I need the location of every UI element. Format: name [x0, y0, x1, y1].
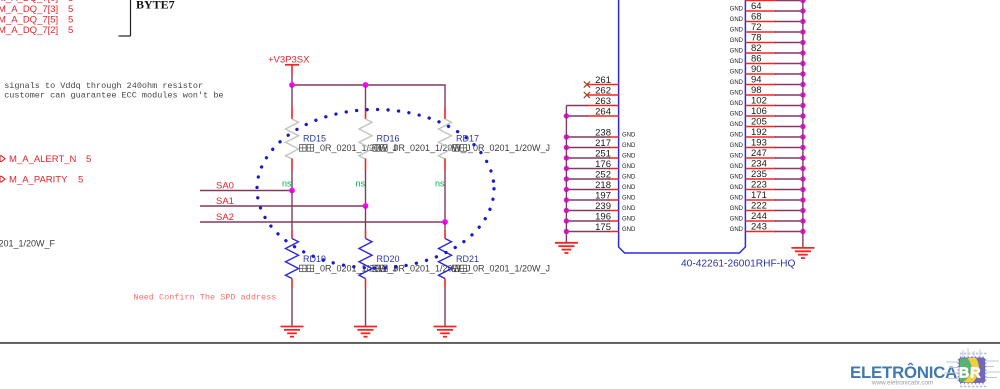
svg-text:+V3P3SX: +V3P3SX — [268, 55, 310, 66]
pin 205 — [730, 117, 776, 129]
pin 197 — [595, 190, 636, 201]
svg-text:GND: GND — [730, 133, 744, 139]
svg-text:GND: GND — [622, 133, 636, 139]
no-connect X pin 262 — [584, 92, 590, 98]
net SA0 — [200, 181, 293, 192]
wire pin 252 to GND rail — [566, 178, 610, 180]
svg-text:GND: GND — [622, 154, 636, 160]
svg-text:5: 5 — [68, 14, 73, 25]
wire RD19 to ground — [291, 288, 293, 327]
pin 193 — [730, 138, 776, 150]
svg-text:M_A_DQ_7[5]: M_A_DQ_7[5] — [0, 14, 58, 25]
svg-text:_0R_0201_1/20W_J: _0R_0201_1/20W_J — [467, 264, 550, 274]
junction pin 222 / GND rail — [800, 208, 805, 213]
wire RD21 to ground — [444, 288, 446, 327]
wire pin 222 to GND rail — [775, 210, 803, 212]
junction pin 94 / GND rail — [800, 82, 805, 87]
junction pin 64 / GND rail — [800, 8, 805, 13]
resistor RD16 — [359, 107, 372, 170]
svg-text:GND: GND — [622, 227, 636, 233]
pin 244 — [730, 211, 776, 223]
resistor RD17 — [439, 107, 452, 170]
junction pin 238 / GND rail — [564, 134, 569, 139]
pin 264 — [587, 106, 619, 117]
svg-text:GND: GND — [730, 70, 744, 76]
wire pin 223 to GND rail — [775, 189, 803, 191]
svg-text:GND: GND — [730, 196, 744, 202]
wire pin 196 to GND rail — [566, 220, 610, 222]
value label RD20 — [373, 264, 471, 274]
junction bus/RD15 — [289, 82, 295, 88]
connector J 40-42261-26001RHF-HQ body — [619, 0, 746, 253]
wire bus to RD15 — [291, 85, 293, 107]
svg-text:GND: GND — [622, 196, 636, 202]
wire SA1 to RD20 — [365, 206, 367, 230]
wire pin 102 to GND rail — [775, 105, 803, 107]
ground — [281, 327, 304, 337]
pin (clipped top row) — [745, 0, 803, 2]
pin 217 — [595, 138, 636, 149]
ground — [354, 327, 377, 337]
wire pin 263 to GND rail — [566, 105, 587, 107]
wire pin 193 to GND rail — [775, 147, 803, 149]
svg-text:GND: GND — [730, 101, 744, 107]
junction pin 78 / GND rail — [800, 40, 805, 45]
pin 222 — [730, 201, 776, 213]
pin 223 — [730, 180, 776, 192]
svg-text:GND: GND — [622, 164, 636, 170]
svg-text:GND: GND — [730, 175, 744, 181]
net SA1 — [200, 196, 366, 207]
svg-text:RD16: RD16 — [377, 134, 400, 144]
svg-text:235: 235 — [751, 169, 767, 180]
junction bus/RD16 — [363, 82, 369, 88]
junction pin 102 / GND rail — [800, 103, 805, 108]
wire pin 90 to GND rail — [775, 73, 803, 75]
junction SA2 — [442, 219, 448, 225]
junction pin 251 / GND rail — [564, 155, 569, 160]
svg-text:GND: GND — [730, 112, 744, 118]
svg-text:GND: GND — [622, 143, 636, 149]
resistor RD19 — [286, 230, 299, 288]
wire RD16 to SA1 — [365, 170, 367, 206]
wire pin 72 to GND rail — [775, 31, 803, 33]
junction pin 247 / GND rail — [800, 155, 805, 160]
wire pin 239 to GND rail — [566, 210, 610, 212]
pin 64 — [730, 1, 776, 13]
junction clipped pin / GND rail — [800, 0, 805, 3]
pin 218 — [595, 180, 636, 191]
svg-text:GND: GND — [622, 185, 636, 191]
off-page connector M_A_ALERT_N — [0, 154, 91, 165]
svg-text:GND: GND — [730, 143, 744, 149]
pin 192 — [730, 127, 776, 139]
wire pin 235 to GND rail — [775, 178, 803, 180]
junction pin 98 / GND rail — [800, 92, 805, 97]
bus bracket BYTE7 — [119, 0, 131, 36]
svg-text:Need Confirn The SPD address: Need Confirn The SPD address — [134, 292, 277, 302]
wire pin 234 to GND rail — [775, 168, 803, 170]
pin 98 — [730, 85, 776, 97]
svg-text:86: 86 — [751, 54, 762, 65]
junction pin 176 / GND rail — [564, 166, 569, 171]
svg-text:RD21: RD21 — [456, 254, 479, 264]
wire pin 86 to GND rail — [775, 63, 803, 65]
junction pin 252 / GND rail — [564, 176, 569, 181]
ground (right rail) — [791, 248, 814, 258]
svg-text:GND: GND — [730, 59, 744, 65]
resistor RD15 — [286, 107, 299, 170]
svg-text:5: 5 — [78, 175, 83, 186]
svg-text:5: 5 — [68, 25, 73, 36]
GND rail (right) — [802, 0, 804, 248]
pin 82 — [730, 43, 776, 55]
wire pin 176 to GND rail — [566, 168, 610, 170]
resistor RD20 — [359, 230, 372, 288]
svg-text:0201_1/20W_F: 0201_1/20W_F — [0, 239, 56, 249]
note: design comment — [0, 81, 224, 101]
svg-text:ns: ns — [355, 178, 365, 188]
svg-text:GND: GND — [730, 49, 744, 55]
pin 252 — [595, 169, 636, 180]
wire pin 82 to GND rail — [775, 52, 803, 54]
wire pin 192 to GND rail — [775, 136, 803, 138]
junction pin 243 / GND rail — [800, 229, 805, 234]
wire RD20 to ground — [365, 288, 367, 327]
svg-text:GND: GND — [730, 80, 744, 86]
svg-text:M_A_ALERT_N: M_A_ALERT_N — [9, 154, 77, 165]
wire pin 244 to GND rail — [775, 220, 803, 222]
pin 234 — [730, 159, 776, 171]
svg-text:SA1: SA1 — [216, 196, 234, 207]
svg-text:244: 244 — [751, 211, 767, 222]
junction pin 192 / GND rail — [800, 134, 805, 139]
wire pin 218 to GND rail — [566, 189, 610, 191]
wire pin 106 to GND rail — [775, 115, 803, 117]
svg-text:GND: GND — [730, 164, 744, 170]
wire bus to RD16 — [365, 85, 367, 107]
wire pin 68 to GND rail — [775, 21, 803, 23]
off-page connector M_A_PARITY — [0, 175, 83, 186]
value label RD19 — [300, 264, 398, 274]
junction pin 68 / GND rail — [800, 19, 805, 24]
net M_A_DQ_7[3] — [0, 4, 73, 15]
svg-text:GND: GND — [730, 122, 744, 128]
svg-text:5: 5 — [68, 4, 73, 15]
wire pin 247 to GND rail — [775, 157, 803, 159]
junction pin 82 / GND rail — [800, 50, 805, 55]
svg-text:GND: GND — [730, 7, 744, 13]
svg-text:193: 193 — [751, 138, 767, 149]
svg-text:GND: GND — [730, 28, 744, 34]
junction pin 196 / GND rail — [564, 218, 569, 223]
junction pin 264 / GND rail — [564, 113, 569, 118]
pin 171 — [730, 190, 776, 202]
power +V3P3SX — [268, 55, 310, 75]
ground — [434, 327, 457, 337]
pin 78 — [730, 33, 776, 45]
value label RD15 — [300, 143, 398, 153]
junction pin 197 / GND rail — [564, 197, 569, 202]
junction pin 239 / GND rail — [564, 208, 569, 213]
wire pin 94 to GND rail — [775, 84, 803, 86]
net M_A_DQ_7[0] — [0, 0, 73, 4]
wire +V3P3SX bus — [291, 84, 445, 86]
svg-text:90: 90 — [751, 64, 762, 75]
svg-text:ns: ns — [435, 178, 445, 188]
svg-text:M_A_DQ_7[2]: M_A_DQ_7[2] — [0, 25, 58, 36]
junction pin 193 / GND rail — [800, 145, 805, 150]
pin 238 — [595, 127, 636, 138]
pin 263 — [587, 96, 619, 107]
pin 262 (no connect) — [588, 85, 619, 96]
junction pin 217 / GND rail — [564, 145, 569, 150]
svg-text:68: 68 — [751, 12, 762, 23]
svg-text:264: 264 — [595, 106, 611, 117]
svg-text:M_A_PARITY: M_A_PARITY — [9, 175, 68, 186]
wire pin 98 to GND rail — [775, 94, 803, 96]
pin 243 — [730, 222, 776, 234]
svg-text:64: 64 — [751, 1, 762, 12]
svg-text:GND: GND — [730, 217, 744, 223]
svg-text:ns: ns — [282, 178, 292, 188]
pin 94 — [730, 75, 776, 87]
svg-text:GND: GND — [730, 154, 744, 160]
value label RD16 — [373, 143, 471, 153]
junction pin 86 / GND rail — [800, 61, 805, 66]
pin 90 — [730, 64, 776, 76]
junction pin 218 / GND rail — [564, 187, 569, 192]
pin 235 — [730, 169, 776, 181]
wire pin 64 to GND rail — [775, 10, 803, 12]
junction pin 90 / GND rail — [800, 71, 805, 76]
annotation highlight ellipse — [257, 110, 494, 269]
svg-text:262: 262 — [595, 85, 611, 96]
wire RD15 to SA0 — [291, 170, 293, 191]
svg-text:192: 192 — [751, 127, 767, 138]
wire SA0 to RD19 — [291, 191, 293, 230]
wire pin 243 to GND rail — [775, 231, 803, 233]
svg-text:94: 94 — [751, 75, 762, 86]
svg-text:72: 72 — [751, 22, 762, 33]
svg-text:243: 243 — [751, 222, 767, 233]
wire pin 78 to GND rail — [775, 42, 803, 44]
pin 175 — [595, 222, 636, 233]
svg-text:40-42261-26001RHF-HQ: 40-42261-26001RHF-HQ — [681, 259, 795, 270]
junction pin 72 / GND rail — [800, 29, 805, 34]
GND rail (left) — [565, 106, 567, 243]
svg-text:263: 263 — [595, 96, 611, 107]
wire pin 264 to GND rail — [566, 115, 587, 117]
junction pin 234 / GND rail — [800, 166, 805, 171]
svg-text:98: 98 — [751, 85, 762, 96]
svg-text:223: 223 — [751, 180, 767, 191]
pin 102 — [730, 96, 776, 108]
svg-text:82: 82 — [751, 43, 762, 54]
svg-text:205: 205 — [751, 117, 767, 128]
svg-text:GND: GND — [622, 217, 636, 223]
wire pin 175 to GND rail — [566, 231, 610, 233]
wire pin 238 to GND rail — [566, 136, 610, 138]
wire RD17 to SA2 — [444, 170, 446, 222]
svg-text:GND: GND — [730, 227, 744, 233]
svg-text:RD20: RD20 — [377, 254, 400, 264]
svg-text:_0R_0201_1/20W_J: _0R_0201_1/20W_J — [467, 143, 550, 153]
svg-text:222: 222 — [751, 201, 767, 212]
svg-text:234: 234 — [751, 159, 767, 170]
svg-text:SA0: SA0 — [216, 181, 234, 192]
svg-text:GND: GND — [730, 38, 744, 44]
wire SA2 to RD21 — [444, 222, 446, 230]
svg-text:102: 102 — [751, 96, 767, 107]
svg-text:GND: GND — [730, 17, 744, 23]
value label RD21 — [453, 264, 551, 274]
svg-text:171: 171 — [751, 190, 767, 201]
pin 247 — [730, 148, 776, 160]
wire bus to RD17 — [444, 85, 446, 107]
svg-text:s customer can guarantee ECC m: s customer can guarantee ECC modules won… — [0, 91, 224, 101]
pin 239 — [595, 201, 636, 212]
pin 86 — [730, 54, 776, 66]
net SA2 — [200, 212, 446, 223]
pin 176 — [595, 159, 636, 170]
svg-text:RD15: RD15 — [303, 134, 326, 144]
svg-text:5: 5 — [86, 154, 91, 165]
no-connect X pin 261 — [584, 81, 590, 87]
wire power stem — [291, 74, 293, 85]
svg-text:106: 106 — [751, 106, 767, 117]
junction SA1 — [363, 203, 369, 209]
junction SA0 — [289, 188, 295, 194]
resistor RD21 — [439, 230, 452, 288]
wire pin 197 to GND rail — [566, 199, 610, 201]
junction pin 175 / GND rail — [564, 229, 569, 234]
junction pin 205 / GND rail — [800, 124, 805, 129]
net M_A_DQ_7[2] — [0, 25, 73, 36]
pin 106 — [730, 106, 776, 118]
svg-text:GND: GND — [622, 175, 636, 181]
svg-text:e signals to Vddq through 240o: e signals to Vddq through 240ohm resisto… — [0, 81, 203, 91]
pin 72 — [730, 22, 776, 34]
net M_A_DQ_7[5] — [0, 14, 73, 25]
junction pin 244 / GND rail — [800, 218, 805, 223]
junction pin 171 / GND rail — [800, 197, 805, 202]
svg-text:78: 78 — [751, 33, 762, 44]
wire pin 171 to GND rail — [775, 199, 803, 201]
pin 261 (no connect) — [588, 75, 619, 86]
wire pin 251 to GND rail — [566, 157, 610, 159]
pin 68 — [730, 12, 776, 24]
svg-text:BR: BR — [959, 366, 982, 382]
svg-text:247: 247 — [751, 148, 767, 159]
junction pin 235 / GND rail — [800, 176, 805, 181]
value label RD17 — [453, 143, 551, 153]
svg-text:GND: GND — [730, 185, 744, 191]
wire pin 217 to GND rail — [566, 147, 610, 149]
svg-text:GND: GND — [622, 206, 636, 212]
svg-text:GND: GND — [730, 206, 744, 212]
svg-text:GND: GND — [730, 91, 744, 97]
svg-text:BYTE7: BYTE7 — [136, 0, 175, 11]
wire pin 205 to GND rail — [775, 126, 803, 128]
pin 251 — [595, 148, 636, 159]
junction pin 106 / GND rail — [800, 113, 805, 118]
svg-text:SA2: SA2 — [216, 212, 234, 223]
svg-text:M_A_DQ_7[3]: M_A_DQ_7[3] — [0, 4, 58, 15]
svg-text:261: 261 — [595, 75, 611, 86]
ground (left rail) — [555, 243, 578, 253]
svg-text:www.eletronicabr.com: www.eletronicabr.com — [871, 379, 933, 386]
junction pin 223 / GND rail — [800, 187, 805, 192]
pin 196 — [595, 211, 636, 222]
